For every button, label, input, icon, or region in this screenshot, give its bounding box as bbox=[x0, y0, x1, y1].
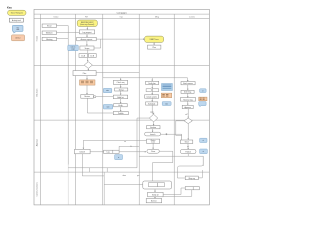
wire: distribution connector bbox=[103, 73, 188, 82]
svg-text:Create assets: Create assets bbox=[146, 95, 157, 98]
marketing box 1 bbox=[146, 81, 159, 85]
process: comms final 1 bbox=[185, 176, 198, 180]
wire: faint vertical continuation bbox=[67, 165, 69, 205]
column separator 1 bbox=[74, 14, 76, 205]
column separator 3 bbox=[138, 14, 140, 205]
process: notify bbox=[148, 192, 164, 197]
wire: stadium2 loop right and down bbox=[153, 151, 173, 181]
svg-text:Wrap up: Wrap up bbox=[189, 177, 195, 180]
wire: send to post with label bbox=[187, 144, 189, 150]
svg-text:Info: Info bbox=[17, 27, 20, 29]
svg-text:ok?: ok? bbox=[185, 114, 188, 116]
wire: wrap up right bbox=[198, 170, 202, 178]
ops box 1 bbox=[113, 80, 127, 84]
wire: receive to triage bbox=[86, 34, 88, 37]
stadium2: close bbox=[147, 149, 159, 153]
process: pm review box lane3 bbox=[75, 149, 91, 154]
svg-text:appr.: appr. bbox=[150, 110, 154, 113]
svg-text:Plan: Plan bbox=[153, 47, 156, 49]
svg-text:done: done bbox=[123, 175, 127, 177]
svg-text:Finalise: Finalise bbox=[150, 127, 156, 129]
svg-text:Verify: Verify bbox=[118, 104, 122, 107]
process: scope bbox=[80, 46, 94, 50]
svg-text:Plan: Plan bbox=[83, 73, 86, 75]
wire: triage down bbox=[86, 41, 88, 46]
wire: lane4 drop vertical bbox=[103, 172, 105, 205]
svg-text:Communications: Communications bbox=[36, 182, 39, 196]
wire: junction into receive box bbox=[68, 32, 79, 34]
wire: yellow2 down bbox=[153, 42, 155, 45]
svg-text:Email: Email bbox=[47, 26, 52, 28]
svg-text:Ops: Ops bbox=[120, 16, 123, 18]
svg-text:Meeting: Meeting bbox=[46, 38, 52, 41]
process: receive request bbox=[79, 30, 94, 34]
svg-text:Check req: Check req bbox=[117, 81, 125, 84]
svg-text:Debrief: Debrief bbox=[80, 150, 86, 153]
wire: container to notify bbox=[154, 189, 156, 192]
lane boundary 2 bbox=[34, 119, 209, 121]
wire: publish stadium stub down bbox=[187, 154, 189, 157]
note callout blue comms 4 bbox=[200, 149, 208, 154]
svg-text:Publish: Publish bbox=[118, 113, 124, 115]
decision diamond D1 bbox=[84, 62, 92, 69]
process: triage bbox=[77, 37, 97, 41]
ops chain wire bbox=[120, 84, 122, 111]
marketing pair box a bbox=[146, 89, 151, 92]
svg-text:Brief comms: Brief comms bbox=[183, 82, 193, 85]
ops box 4 bbox=[114, 104, 128, 108]
wire: requester boxes junction bbox=[57, 26, 69, 39]
comms box 1 bbox=[181, 82, 195, 86]
marketing box 3 bbox=[146, 102, 158, 106]
wire: log pair riser connector bbox=[119, 146, 139, 150]
wire: artifact down bbox=[86, 85, 88, 94]
comms box 3 bbox=[180, 98, 195, 102]
chart outer border bbox=[34, 9, 209, 205]
process: stakeholder review bbox=[81, 95, 94, 99]
svg-text:Schedule: Schedule bbox=[148, 103, 155, 105]
wire: D1 down bbox=[87, 68, 89, 70]
process: archive bbox=[146, 199, 162, 203]
svg-text:Review msg: Review msg bbox=[183, 99, 192, 101]
start node (yellow stadium) bbox=[77, 20, 97, 27]
comms box 5 bbox=[180, 140, 192, 144]
requester box 3 bbox=[42, 37, 56, 41]
wire: stadium right to comms rect bbox=[161, 133, 182, 140]
comms stadium: post bbox=[180, 149, 196, 153]
svg-text:Scope: Scope bbox=[85, 48, 90, 50]
svg-text:Mktg: Mktg bbox=[155, 15, 159, 18]
note callout blue comms 2 bbox=[199, 102, 206, 107]
svg-text:yes: yes bbox=[137, 175, 140, 177]
marketing box 2 bbox=[145, 95, 159, 99]
legend process box (white) bbox=[9, 18, 23, 22]
ops box 2 bbox=[115, 88, 128, 91]
decision diamond D4 bbox=[149, 114, 158, 122]
comms chain wires bbox=[187, 85, 189, 140]
legend data shape (orange) bbox=[11, 35, 24, 41]
requester box 1 bbox=[42, 24, 56, 28]
note callout blue comms 3 bbox=[200, 138, 207, 142]
marketing chain wires bbox=[152, 85, 153, 133]
comms box 2 bbox=[181, 90, 194, 93]
svg-text:Set up: Set up bbox=[119, 88, 124, 91]
svg-text:Draft msg: Draft msg bbox=[184, 91, 191, 94]
wire: lane3 right connector bbox=[139, 156, 203, 166]
wire: plan down to artifact bbox=[86, 76, 88, 80]
ops box 3 bbox=[113, 95, 127, 99]
svg-text:Publish: Publish bbox=[185, 151, 191, 153]
note callout (blue) lane1 bbox=[68, 45, 79, 51]
wire: notify to archive bbox=[154, 197, 156, 199]
marketing box 4 (approve) bbox=[147, 126, 161, 130]
svg-text:no: no bbox=[124, 141, 126, 143]
stadium: go live bbox=[145, 132, 161, 136]
column header row line bbox=[34, 17, 209, 19]
svg-text:Build list: Build list bbox=[117, 96, 124, 99]
wire: debrief elbow to drop bbox=[82, 175, 104, 177]
note callout blue ops 2 bbox=[103, 105, 112, 110]
marketing box 5 (2-line) bbox=[147, 139, 160, 144]
svg-text:ok: ok bbox=[187, 146, 189, 148]
requester box 2 bbox=[42, 31, 56, 35]
process: under yellow2 bbox=[148, 45, 161, 49]
wire: pair to stadium2 bbox=[119, 151, 145, 153]
wire: long feedback vertical bbox=[67, 39, 69, 165]
process: plan work bbox=[73, 71, 96, 76]
lane label strip line bbox=[40, 14, 42, 205]
lane boundary 3 bbox=[34, 171, 209, 173]
wire: pair to decision bbox=[87, 57, 89, 61]
note callout blue lane3 bbox=[115, 155, 123, 160]
svg-text:Webform: Webform bbox=[46, 32, 53, 35]
wire: triage to marketing start bbox=[96, 38, 143, 40]
column separator 4 bbox=[173, 14, 175, 205]
legend start/end shape (yellow stadium) bbox=[8, 10, 26, 15]
svg-text:Log: Log bbox=[107, 152, 110, 154]
process: ops pair lane3 bbox=[104, 150, 120, 153]
svg-text:Review: Review bbox=[84, 96, 90, 98]
svg-text:Start / End point: Start / End point bbox=[11, 12, 24, 15]
wire: loop right of scope box bbox=[94, 39, 101, 48]
arrowheads bbox=[86, 28, 189, 198]
decision diamond D5 bbox=[184, 118, 192, 124]
wire: debrief to pair bbox=[90, 151, 104, 153]
wire: start to receive bbox=[86, 27, 88, 30]
svg-text:START here: START here bbox=[149, 38, 158, 41]
wire: notify right elbow bbox=[163, 188, 185, 195]
wire: branch line lane3 bottom bbox=[68, 141, 137, 172]
legend note callout (blue) bbox=[12, 25, 23, 33]
chart title band line bbox=[34, 13, 209, 15]
big blue note table bbox=[162, 84, 173, 91]
artifact orange marketing bbox=[161, 93, 171, 98]
note callout blue marketing bbox=[162, 102, 171, 106]
svg-text:Key: Key bbox=[7, 6, 12, 10]
wire: monitor to stadium2 bbox=[152, 143, 154, 149]
wire: comms loop entry bbox=[178, 156, 204, 178]
svg-text:Approve: Approve bbox=[36, 139, 39, 146]
svg-text:Activity task: Activity task bbox=[12, 19, 21, 22]
artifact orange comms bbox=[199, 97, 207, 101]
wire: scope down bbox=[87, 50, 89, 54]
svg-text:Draft plan: Draft plan bbox=[148, 82, 155, 85]
wire: plan right to columns bbox=[96, 72, 139, 74]
note callout blue ops 1 bbox=[103, 88, 112, 92]
process: comms final pair bbox=[185, 187, 199, 190]
marketing start node (yellow stadium 2) bbox=[145, 36, 164, 42]
svg-text:Intake: Intake bbox=[54, 15, 59, 18]
svg-text:Send: Send bbox=[185, 142, 189, 144]
wire: cross connector into marketing review bbox=[83, 140, 146, 148]
process: small pair B bbox=[88, 54, 96, 58]
svg-text:Validation: Validation bbox=[36, 89, 39, 97]
svg-text:scope: scope bbox=[71, 49, 75, 51]
svg-text:Assess request: Assess request bbox=[81, 38, 93, 41]
wire: final pair loop down bbox=[164, 190, 192, 197]
svg-text:Launch: Launch bbox=[150, 134, 156, 136]
ops box 5 bbox=[113, 112, 128, 116]
wire: D5 left loop bbox=[176, 121, 184, 140]
svg-text:Archive: Archive bbox=[151, 200, 157, 203]
column separator 2 bbox=[102, 14, 104, 205]
container: comms group bbox=[143, 181, 172, 189]
svg-text:(from any channel): (from any channel) bbox=[80, 23, 95, 26]
svg-text:Log request: Log request bbox=[83, 31, 92, 34]
lane boundary 1 bbox=[34, 64, 209, 66]
wire: circle to ops chain bbox=[96, 96, 113, 98]
note callout blue comms 1 bbox=[200, 89, 207, 93]
svg-text:Approve: Approve bbox=[185, 106, 191, 109]
svg-text:Close: Close bbox=[151, 151, 155, 153]
wire: review elbow to ops rect5 bbox=[87, 98, 113, 113]
artifact (orange) lane2 bbox=[80, 80, 96, 85]
wire: into comms container bbox=[104, 184, 143, 186]
svg-text:Campaigns: Campaigns bbox=[117, 12, 127, 14]
process: small pair A bbox=[79, 54, 87, 58]
comms box 4 bbox=[182, 105, 193, 109]
connector circle node bbox=[94, 96, 96, 98]
svg-text:Notify all: Notify all bbox=[152, 194, 159, 197]
wire: D4 left loop bbox=[137, 118, 149, 141]
wire: debrief stub down bbox=[81, 154, 83, 176]
marketing pair box b bbox=[153, 89, 159, 92]
svg-text:Comms: Comms bbox=[189, 16, 195, 18]
svg-text:Intake: Intake bbox=[36, 36, 39, 41]
